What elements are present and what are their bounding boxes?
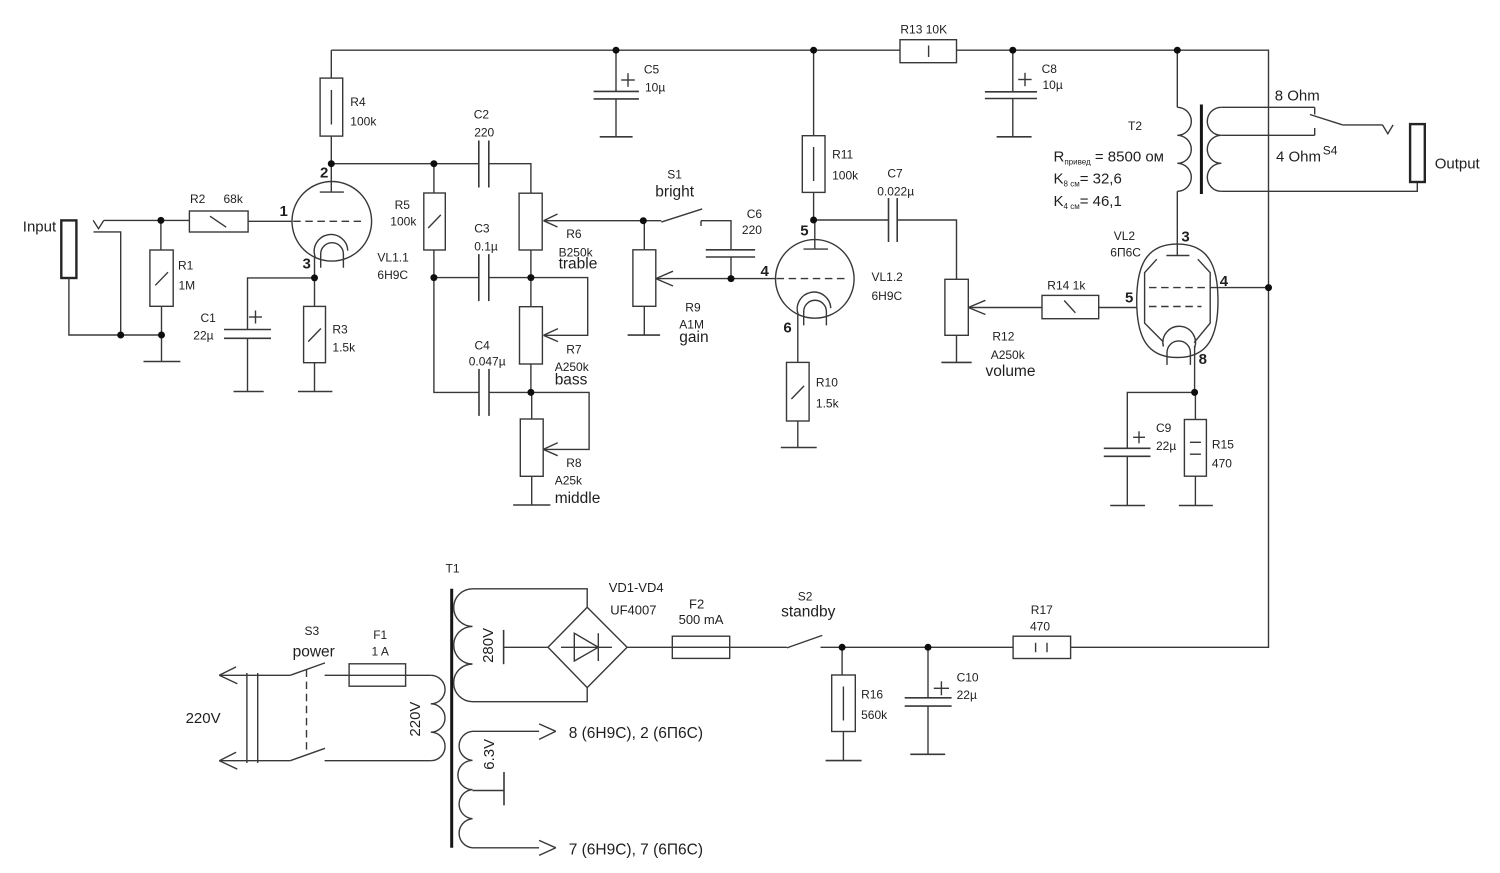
ground below C5 (600, 136, 633, 138)
svg-text:6П6С: 6П6С (1110, 246, 1141, 260)
switch S3 lever bottom (290, 748, 325, 760)
connector X1 input jack (61, 220, 76, 278)
svg-text:220: 220 (474, 126, 494, 140)
svg-text:C5: C5 (644, 63, 660, 77)
mains arrow top (219, 667, 237, 684)
svg-text:S4: S4 (1323, 144, 1338, 158)
svg-text:10µ: 10µ (1043, 78, 1063, 92)
svg-text:C9: C9 (1156, 421, 1172, 435)
node R16 (839, 644, 846, 651)
svg-text:standby: standby (781, 604, 836, 621)
svg-text:F2: F2 (689, 597, 704, 612)
svg-text:0.047µ: 0.047µ (469, 355, 506, 369)
wire T2 primary bottom to VL2 anode pin 3 (1176, 191, 1178, 255)
wire left rail R5 bottom to C4 (434, 250, 479, 392)
node VL2 screen rail (1265, 284, 1272, 291)
wire C10 top lead (927, 647, 929, 698)
svg-text:R17: R17 (1031, 603, 1053, 617)
potentiometer R8 (520, 419, 543, 476)
svg-text:R4: R4 (350, 95, 366, 109)
wire R4 top to rail (330, 50, 332, 78)
resistor R3 (304, 306, 326, 362)
wire C7 right to R12 top (897, 220, 956, 279)
ground below C8 (997, 136, 1032, 138)
svg-text:S1: S1 (667, 168, 682, 182)
svg-text:bass: bass (555, 372, 588, 389)
mains connector bars (247, 673, 258, 763)
svg-text:R13 10K: R13 10K (900, 22, 947, 36)
svg-text:R12: R12 (992, 329, 1014, 343)
switch S4 lever (1310, 115, 1343, 125)
wire cathode node to C9 (1127, 392, 1194, 448)
resistor R13 (900, 40, 957, 63)
wire T2 secondary bottom to output (1221, 182, 1417, 191)
mains arrow bottom (219, 752, 237, 769)
wire R2 to VL1.1 grid pin 1 (248, 220, 292, 222)
resistor R17 (1013, 636, 1071, 658)
bridge internal wire (561, 646, 612, 648)
wire C2 right to R6 top (489, 164, 531, 194)
VL2 anode plate (1166, 255, 1189, 257)
svg-text:R16: R16 (861, 688, 883, 702)
svg-text:R15: R15 (1212, 438, 1234, 452)
svg-text:S3: S3 (305, 624, 320, 638)
ground below R3 (298, 391, 332, 393)
wire VL2 screen to B+ rail (1210, 287, 1268, 289)
svg-text:C4: C4 (475, 339, 491, 353)
svg-text:22µ: 22µ (957, 688, 977, 702)
wire R10 bottom to ground (797, 421, 799, 448)
capacitor C1 (224, 330, 271, 339)
potentiometer R7 (520, 307, 543, 364)
svg-text:VD1-VD4: VD1-VD4 (609, 580, 664, 595)
wire R3 bottom to ground (314, 363, 316, 392)
svg-text:6H9C: 6H9C (377, 268, 408, 282)
svg-text:0.022µ: 0.022µ (877, 185, 914, 199)
svg-text:4 Ohm: 4 Ohm (1276, 149, 1321, 166)
wire R9 wiper to VL1.2 grid pin 4 (656, 278, 776, 280)
capacitor C3 (479, 254, 489, 301)
svg-text:R6: R6 (566, 227, 582, 241)
wire C3 right (489, 277, 531, 279)
svg-text:280V: 280V (480, 628, 497, 663)
fuse F1 (349, 664, 406, 686)
wire C5 bottom to ground (615, 99, 617, 137)
capacitor C5 (594, 91, 639, 99)
potentiometer R12 (945, 279, 968, 335)
svg-text:C8: C8 (1042, 62, 1058, 76)
svg-text:6.3V: 6.3V (481, 739, 498, 770)
input jack tip contact (93, 220, 104, 228)
wire T2 primary top lead (1176, 50, 1178, 107)
wire R4 bottom to anode node (330, 136, 332, 164)
wire R11 top lead (813, 50, 815, 136)
wire R15 bottom to ground (1194, 476, 1196, 505)
wire bridge AC left to ground (504, 646, 548, 648)
R6 wiper arrow (544, 214, 558, 227)
wire 4 Ohm tap (1221, 134, 1314, 136)
svg-text:UF4007: UF4007 (610, 603, 656, 618)
wire R16 top lead (841, 647, 843, 675)
heater bottom arrow (539, 840, 556, 855)
ground below R12 (941, 361, 971, 363)
VL1.1 anode lead (330, 164, 332, 192)
svg-text:7 (6Н9С), 7 (6П6С): 7 (6Н9С), 7 (6П6С) (569, 842, 703, 859)
VL1.2 heater (804, 300, 827, 325)
svg-text:power: power (293, 644, 335, 661)
resistor R5 (424, 193, 446, 250)
node C8 rail (1009, 47, 1016, 54)
svg-text:C1: C1 (201, 311, 217, 325)
VL2 cathode arc (1163, 326, 1196, 348)
wire jack tip to R2 (104, 219, 190, 221)
svg-text:R1: R1 (178, 259, 194, 273)
R12 wiper arrow (968, 300, 985, 314)
svg-text:3: 3 (303, 256, 311, 273)
wire R8 wiper bypass (531, 392, 589, 449)
svg-text:22µ: 22µ (193, 329, 213, 343)
wire R16 bottom to ground (842, 732, 844, 761)
node VL2 cathode (1191, 389, 1198, 396)
wire R6 bottom lead (530, 250, 532, 278)
R8 wiper arrow (543, 443, 558, 456)
VL1.1 grid dashed (293, 220, 361, 222)
svg-text:R14 1k: R14 1k (1047, 279, 1086, 293)
svg-text:1 A: 1 A (372, 645, 389, 659)
input jack sleeve contact (94, 232, 121, 335)
4 Ohm contact tick (1314, 128, 1316, 135)
svg-text:trable: trable (559, 256, 598, 273)
svg-text:560k: 560k (861, 708, 888, 722)
svg-text:R7: R7 (566, 343, 582, 357)
ground left of bridge (503, 630, 505, 664)
svg-text:volume: volume (986, 363, 1036, 380)
capacitor C7 (889, 198, 898, 242)
svg-text:8: 8 (1199, 351, 1207, 368)
VL2 cathode lead pin 8 (1194, 346, 1196, 392)
resistor R2 (189, 211, 248, 232)
ground heater center tap (503, 772, 505, 805)
capacitor C4 (479, 369, 489, 416)
svg-text:220V: 220V (186, 710, 221, 727)
bridge diode symbol (574, 633, 598, 661)
wire S1 to C6 (701, 221, 731, 250)
node input tip (157, 217, 164, 224)
ground below R10 (781, 447, 817, 449)
svg-text:Output: Output (1435, 156, 1481, 173)
svg-text:470: 470 (1212, 457, 1232, 471)
wire C9 bottom to ground (1126, 456, 1128, 505)
wire R1 top lead (160, 220, 162, 250)
wire C5 top lead (615, 50, 617, 91)
svg-text:T2: T2 (1128, 119, 1142, 133)
wire jack sleeve to ground bus (69, 278, 162, 335)
svg-text:VL1.2: VL1.2 (872, 270, 904, 284)
wire R9 bottom to ground (643, 306, 645, 335)
polarity plus of C8 (1018, 73, 1031, 86)
svg-text:22µ: 22µ (1156, 439, 1176, 453)
VL2 control grid dashed pin 5 (1149, 306, 1202, 308)
wire mains top to S3 (219, 674, 290, 676)
node VL1.1 anode (328, 160, 335, 167)
transformer T1 primary winding 220V (431, 675, 445, 760)
resistor R14 (1042, 295, 1099, 318)
svg-text:R9: R9 (685, 301, 701, 315)
transformer T2 primary winding (1177, 107, 1191, 191)
R7 wiper arrow (544, 329, 559, 342)
svg-text:C2: C2 (474, 108, 490, 122)
capacitor C10 (905, 698, 952, 706)
8 Ohm contact tick (1314, 107, 1316, 114)
node VL1.2 anode (810, 217, 817, 224)
svg-text:220V: 220V (407, 702, 424, 737)
svg-text:R5: R5 (395, 198, 411, 212)
capacitor C2 (479, 141, 489, 188)
wire C8 top lead (1012, 50, 1014, 92)
node C10 (925, 644, 932, 651)
svg-text:A25k: A25k (555, 474, 583, 488)
VL1.1 cathode lead pin 3 (314, 257, 316, 278)
svg-text:220: 220 (742, 223, 762, 237)
wire C3 left (434, 277, 479, 279)
svg-text:R2: R2 (190, 192, 206, 206)
svg-text:1M: 1M (179, 279, 196, 293)
wire R8 top lead (531, 392, 533, 419)
svg-text:500 mA: 500 mA (679, 612, 724, 627)
wire S2 to R17 (821, 646, 1014, 648)
svg-text:2: 2 (320, 165, 328, 182)
node C5 rail (613, 47, 620, 54)
svg-text:5: 5 (800, 223, 808, 240)
svg-text:0.1µ: 0.1µ (474, 240, 498, 254)
svg-text:1: 1 (280, 203, 288, 220)
wire R9 top lead (643, 221, 645, 250)
VL2 beam plate right (1194, 259, 1210, 342)
triode VL1.2 envelope (776, 240, 855, 319)
node R5 top (430, 160, 437, 167)
resistor R11 (802, 136, 825, 193)
R9 wiper arrow (656, 271, 673, 286)
wire R6 wiper to S1 (544, 220, 662, 222)
svg-text:VL2: VL2 (1114, 229, 1136, 243)
svg-text:6: 6 (783, 320, 791, 337)
resistor R1 (150, 250, 173, 306)
svg-text:8 (6Н9С), 2 (6П6С): 8 (6Н9С), 2 (6П6С) (569, 725, 703, 742)
polarity plus of C5 (621, 73, 635, 87)
VL1.1 anode plate (320, 191, 344, 193)
diode bridge VD1-VD4 diamond (548, 607, 627, 687)
resistor R10 (787, 362, 810, 421)
switch S2 lever (787, 635, 822, 648)
ground below R9 (628, 334, 661, 336)
wire C6 bottom to grid node (730, 257, 732, 279)
wire S4 to output jack (1343, 124, 1383, 126)
wire cathode node to R3 (314, 278, 316, 307)
svg-text:68k: 68k (224, 192, 244, 206)
wire C10 bottom to ground (927, 706, 929, 754)
wire R12 bottom to ground (956, 335, 958, 362)
beam tetrode VL2 envelope (1137, 244, 1218, 357)
svg-text:10µ: 10µ (645, 81, 665, 95)
ground below C1 (234, 391, 264, 393)
wire HV top to bridge (473, 589, 588, 608)
svg-text:T1: T1 (446, 562, 460, 576)
svg-text:C10: C10 (957, 671, 979, 685)
svg-text:4: 4 (761, 263, 770, 280)
node VL1.2 grid (728, 275, 735, 282)
node sleeve ground (117, 332, 124, 339)
node T2 rail (1174, 47, 1181, 54)
VL1.1 cathode arc (314, 234, 348, 257)
polarity plus of C9 (1133, 431, 1145, 443)
wire R8 bottom to ground (531, 476, 533, 505)
svg-text:8 Ohm: 8 Ohm (1275, 88, 1320, 105)
wire bridge output to S2 (627, 646, 787, 648)
VL1.2 anode plate (804, 248, 829, 250)
switch S3 lever top (290, 663, 325, 675)
svg-text:3: 3 (1181, 229, 1189, 246)
svg-text:gain: gain (679, 329, 708, 346)
wire 8 Ohm tap (1221, 106, 1314, 108)
wire R11 bottom to anode node (813, 192, 815, 220)
wire R5 top lead (433, 164, 435, 193)
ground below R16 (826, 760, 862, 762)
resistor R16 (832, 675, 856, 732)
node R5 bottom (430, 274, 437, 281)
node R7 top (527, 274, 534, 281)
VL1.2 anode lead (814, 220, 816, 249)
ground below C10 (910, 753, 945, 755)
svg-text:middle: middle (555, 490, 601, 507)
wire R15 top lead (1194, 392, 1196, 419)
transformer T2 core (1200, 105, 1203, 195)
VL2 screen grid dashed pin 4 (1149, 287, 1210, 289)
wire mains bottom to S3 (219, 760, 290, 762)
potentiometer R6 (519, 193, 542, 250)
wire R14 to VL2 grid pin 5 (1099, 307, 1137, 309)
wire S3 top to F1 and T1 (325, 674, 431, 676)
wire C4 right to R8 node (489, 391, 531, 393)
svg-text:A250k: A250k (991, 348, 1026, 362)
capacitor C9 (1104, 448, 1151, 456)
svg-text:C6: C6 (747, 207, 763, 221)
svg-text:470: 470 (1030, 620, 1050, 634)
wire anode node to C7 (814, 219, 889, 221)
triode VL1.1 envelope (292, 182, 372, 262)
wire HV bottom to bridge (473, 688, 588, 702)
VL1.2 grid dashed (777, 278, 846, 280)
wire R7 top lead (530, 278, 532, 307)
svg-text:R3: R3 (332, 323, 348, 337)
svg-text:VL1.1: VL1.1 (377, 251, 409, 265)
transformer T1 heater winding 6.3V (458, 731, 473, 848)
node R11 rail (810, 47, 817, 54)
svg-text:4: 4 (1220, 273, 1229, 290)
wire B+ rail left (331, 49, 900, 51)
VL1.2 cathode lead pin 6 (797, 315, 799, 363)
ground below R8 (513, 504, 550, 506)
resistor R4 (320, 78, 343, 136)
svg-text:bright: bright (655, 184, 694, 201)
transformer T2 secondary winding (1207, 107, 1221, 191)
VL1.1 heater (321, 243, 344, 268)
switch S1 lever (661, 209, 702, 222)
svg-text:1.5k: 1.5k (332, 341, 356, 355)
svg-text:Input: Input (23, 219, 57, 236)
wire S3 bottom to T1 (325, 760, 431, 762)
transformer T1 core (450, 589, 453, 848)
svg-text:C3: C3 (474, 222, 490, 236)
fuse F2 (672, 636, 729, 658)
node S1 R9 (640, 217, 647, 224)
svg-text:6H9C: 6H9C (872, 289, 903, 303)
VL1.2 cathode arc (797, 292, 831, 315)
wire anode rail VL1.1 (331, 163, 479, 165)
capacitor C8 (985, 92, 1037, 99)
wire R7 bottom lead (530, 364, 532, 392)
wire heater center tap (473, 790, 505, 792)
wire R1 bottom to ground (161, 306, 163, 361)
svg-text:R10: R10 (816, 376, 838, 390)
wire heater bottom lead (473, 847, 540, 849)
svg-text:C7: C7 (887, 167, 903, 181)
wire R12 wiper to R14 (968, 307, 1042, 309)
VL2 beam plate left (1145, 259, 1163, 341)
node R1 ground (158, 332, 165, 339)
VL2 heater (1167, 341, 1190, 365)
ground below R15 (1179, 505, 1213, 507)
S1 fixed contact (700, 221, 702, 226)
wire heater top lead (473, 730, 540, 732)
node R8 top (527, 389, 534, 396)
connector X2 output jack (1410, 124, 1425, 182)
polarity plus of C10 (934, 681, 949, 695)
wire cathode node to C1 (248, 278, 315, 330)
output jack tip contact (1383, 125, 1394, 134)
node VL1.1 cathode (311, 274, 318, 281)
ground below R1 (144, 361, 181, 363)
svg-text:R8: R8 (566, 456, 582, 470)
svg-text:1.5k: 1.5k (816, 397, 840, 411)
svg-text:R11: R11 (832, 148, 853, 162)
wire B+ rail right and down to R17 (957, 50, 1269, 647)
ground below C9 (1110, 505, 1145, 507)
capacitor C6 (706, 250, 755, 257)
potentiometer R9 (633, 250, 656, 306)
heater top arrow (539, 724, 556, 740)
svg-text:5: 5 (1125, 290, 1133, 307)
svg-text:100k: 100k (832, 168, 859, 182)
transformer T1 HV winding 280V (454, 589, 473, 702)
svg-text:100k: 100k (350, 115, 377, 129)
S3 coupling dashed (306, 670, 308, 753)
resistor R15 (1184, 420, 1206, 477)
wire R7 wiper bypass (531, 278, 588, 336)
wire C8 bottom to ground (1012, 99, 1014, 137)
svg-text:S2: S2 (798, 590, 813, 604)
polarity plus of C1 (249, 311, 262, 324)
svg-text:100k: 100k (390, 215, 417, 229)
wire C1 bottom to ground (247, 338, 249, 391)
svg-text:F1: F1 (373, 628, 387, 642)
